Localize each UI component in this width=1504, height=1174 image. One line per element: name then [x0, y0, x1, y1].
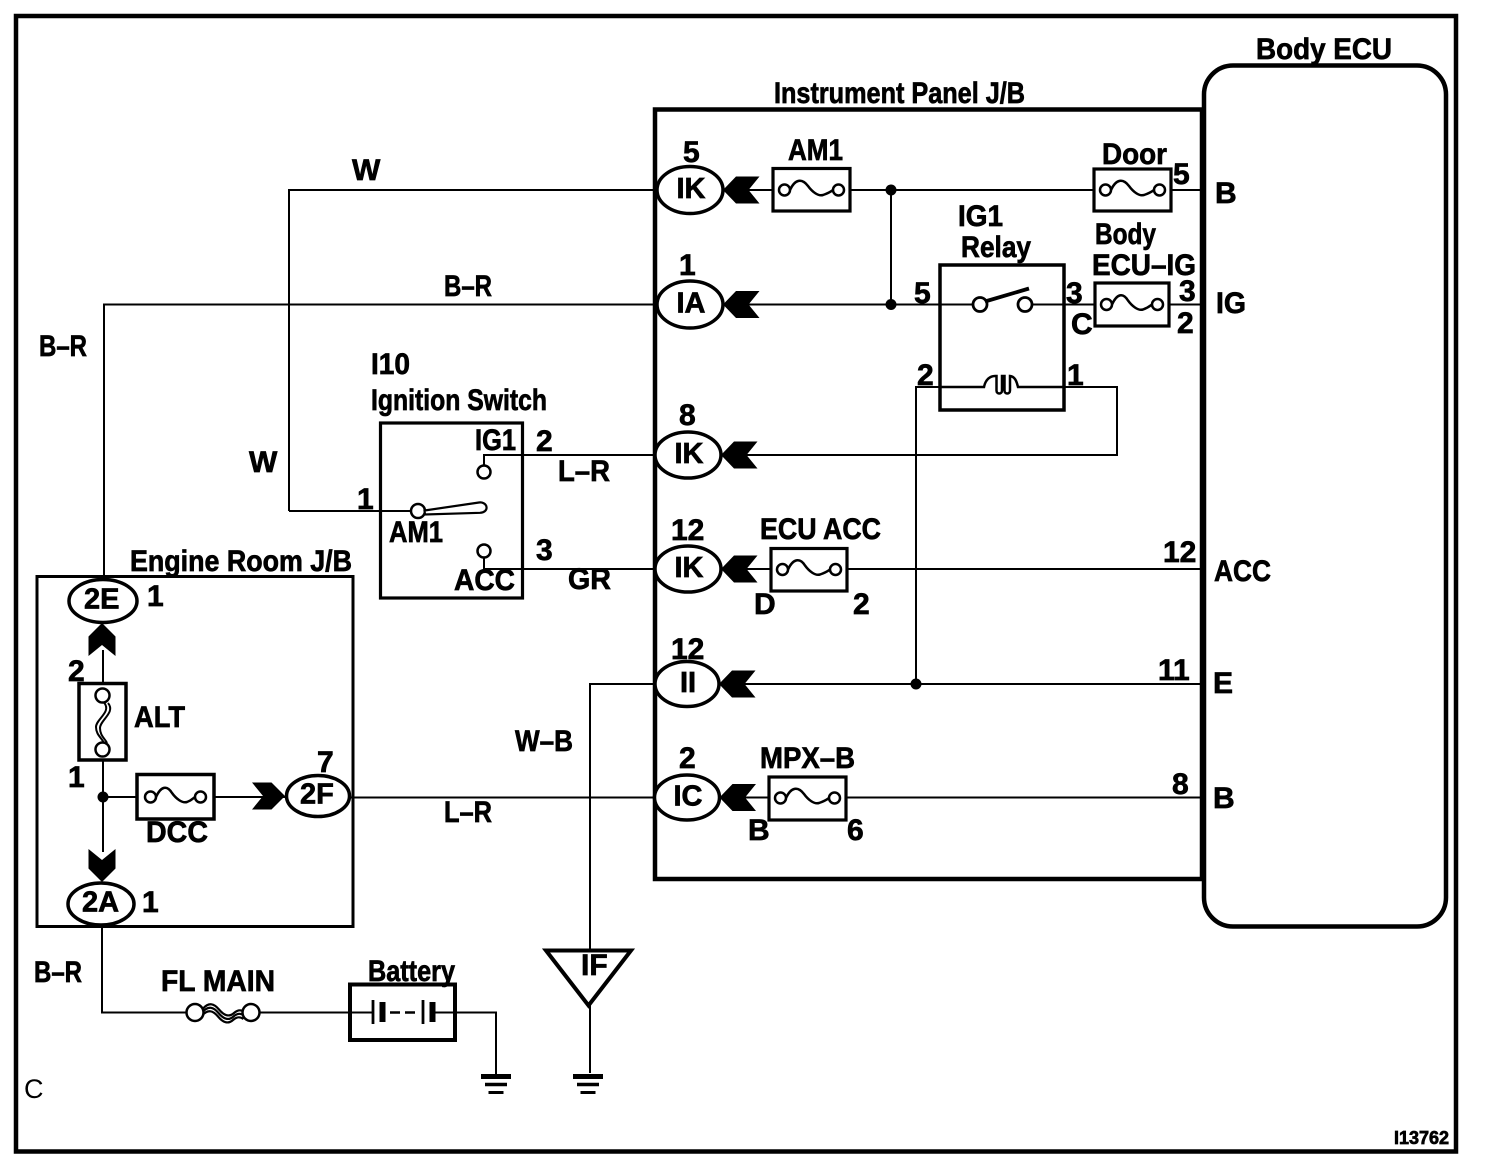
- connector 2A: [68, 883, 134, 925]
- svg-text:12: 12: [1163, 536, 1196, 569]
- junction dot AM1/Door: [886, 185, 897, 196]
- fuse ECU ACC: [771, 549, 847, 592]
- svg-text:12: 12: [671, 633, 704, 666]
- wire row1 B: [718, 189, 1203, 191]
- svg-text:D: D: [754, 588, 776, 621]
- svg-text:1: 1: [147, 580, 164, 613]
- svg-text:11: 11: [1158, 654, 1190, 687]
- svg-text:7: 7: [317, 746, 334, 779]
- svg-text:Instrument Panel J/B: Instrument Panel J/B: [774, 77, 1025, 110]
- svg-text:B–R: B–R: [444, 270, 492, 303]
- svg-text:1: 1: [679, 249, 696, 282]
- svg-text:L–R: L–R: [558, 455, 610, 488]
- junction dot ALT/DCC: [98, 792, 109, 803]
- relay IG1 box: [940, 265, 1064, 410]
- wire 2F to IC: [348, 797, 662, 799]
- svg-text:IG1: IG1: [958, 200, 1003, 233]
- svg-text:B: B: [748, 814, 770, 847]
- svg-text:C: C: [24, 1074, 44, 1104]
- svg-text:IG1: IG1: [475, 424, 516, 457]
- wire row4 ACC: [718, 568, 1203, 570]
- wire DCC row: [103, 796, 290, 798]
- wire 2A to battery: [102, 924, 188, 1013]
- wire battery to ground: [453, 1013, 496, 1075]
- arrow into II: [719, 671, 756, 698]
- svg-text:Battery: Battery: [368, 955, 455, 988]
- svg-text:B–R: B–R: [34, 956, 82, 989]
- ground (battery): [481, 1077, 511, 1093]
- svg-text:B: B: [1213, 782, 1235, 815]
- terminal AM1 + lever: [289, 510, 412, 512]
- svg-text:IK: IK: [675, 552, 704, 584]
- svg-text:IF: IF: [581, 949, 608, 982]
- svg-text:ALT: ALT: [134, 701, 185, 734]
- arrow up from ALT: [89, 623, 116, 656]
- svg-text:3: 3: [536, 534, 553, 567]
- svg-text:12: 12: [671, 514, 704, 547]
- svg-text:B: B: [1215, 177, 1237, 210]
- Engine Room J/B box: [37, 577, 353, 927]
- svg-text:2A: 2A: [82, 887, 119, 919]
- terminal ACC: [478, 545, 491, 558]
- svg-text:L–R: L–R: [444, 796, 492, 829]
- svg-text:DCC: DCC: [146, 816, 208, 849]
- junction dot IA row: [886, 299, 897, 310]
- wire row2 IG: [718, 304, 1203, 306]
- wire W-B rail: [590, 684, 662, 950]
- svg-text:IG: IG: [1216, 287, 1246, 320]
- svg-text:AM1: AM1: [788, 134, 843, 167]
- svg-text:3: 3: [1179, 275, 1196, 308]
- wire relay pin2 down: [916, 387, 940, 684]
- connector IC (2): [655, 775, 720, 820]
- connector IF triangle: [546, 951, 631, 1006]
- ground (IF): [573, 1077, 603, 1093]
- arrow into IK5: [723, 177, 760, 204]
- svg-text:5: 5: [914, 277, 931, 310]
- svg-text:1: 1: [357, 483, 374, 516]
- svg-text:ECU ACC: ECU ACC: [760, 513, 881, 546]
- svg-text:ACC: ACC: [454, 564, 515, 597]
- wire IG1 to IK8: [484, 455, 662, 466]
- relay coil: [940, 376, 1064, 394]
- connector 2F: [287, 776, 350, 817]
- fuse DCC: [137, 775, 214, 820]
- svg-text:6: 6: [847, 814, 864, 847]
- svg-text:Door: Door: [1102, 138, 1167, 171]
- battery: [350, 985, 455, 1041]
- connector IA (1): [657, 281, 723, 328]
- svg-text:E: E: [1213, 667, 1233, 700]
- svg-text:2E: 2E: [84, 584, 119, 616]
- svg-text:I13762: I13762: [1394, 1128, 1449, 1148]
- arrow into IA: [723, 291, 760, 318]
- svg-text:Relay: Relay: [961, 231, 1031, 264]
- wire engine room vertical: [102, 650, 104, 690]
- svg-text:3: 3: [1066, 277, 1083, 310]
- svg-text:8: 8: [679, 399, 696, 432]
- fuse Door: [1094, 169, 1171, 211]
- wire B-R rail: [104, 305, 662, 580]
- svg-text:8: 8: [1172, 768, 1189, 801]
- svg-text:W–B: W–B: [515, 725, 573, 758]
- fuse MPX-B: [769, 777, 846, 820]
- wire W rail: [289, 190, 662, 511]
- connector 2E: [69, 580, 137, 623]
- svg-text:B–R: B–R: [39, 330, 87, 363]
- arrow into IK12: [721, 556, 758, 583]
- svg-text:2: 2: [1177, 307, 1194, 340]
- svg-text:2F: 2F: [300, 779, 334, 811]
- svg-text:2: 2: [679, 742, 696, 775]
- fuse AM1: [773, 169, 850, 212]
- svg-text:IA: IA: [677, 288, 706, 320]
- connector II (12): [655, 662, 719, 707]
- svg-text:IK: IK: [677, 173, 706, 205]
- svg-text:W: W: [352, 154, 381, 187]
- fusible link ALT: [79, 684, 126, 761]
- svg-text:2: 2: [536, 425, 553, 458]
- svg-text:C: C: [1071, 308, 1093, 341]
- ignition switch I10 box: [289, 423, 523, 598]
- fuse Body ECU-IG: [1095, 283, 1169, 326]
- svg-text:II: II: [680, 667, 696, 699]
- relay contact: [940, 304, 973, 306]
- svg-text:Ignition Switch: Ignition Switch: [371, 384, 547, 417]
- connector IK (12): [655, 546, 721, 592]
- svg-text:FL MAIN: FL MAIN: [161, 965, 275, 998]
- terminal IG1: [483, 455, 485, 466]
- svg-text:IK: IK: [675, 438, 704, 470]
- arrow down to 2A: [89, 849, 116, 882]
- svg-text:AM1: AM1: [389, 516, 443, 549]
- svg-text:2: 2: [917, 359, 934, 392]
- connector IK (5): [657, 167, 723, 214]
- svg-text:Body ECU: Body ECU: [1256, 33, 1392, 66]
- svg-text:IC: IC: [674, 781, 703, 813]
- svg-text:2: 2: [853, 588, 870, 621]
- svg-text:1: 1: [68, 761, 85, 794]
- svg-text:GR: GR: [568, 563, 611, 596]
- wire ACC from switch: [484, 557, 662, 569]
- svg-text:Body: Body: [1095, 218, 1156, 251]
- Instrument Panel J/B box: [655, 110, 1202, 880]
- wire row3 relay loop: [718, 387, 1117, 455]
- svg-text:2: 2: [68, 655, 85, 688]
- svg-text:ACC: ACC: [1214, 555, 1271, 588]
- svg-text:1: 1: [142, 886, 159, 919]
- Body ECU box: [1204, 66, 1446, 927]
- svg-text:MPX–B: MPX–B: [760, 742, 855, 775]
- connector IK (8): [655, 432, 721, 478]
- junction dot E row: [911, 679, 922, 690]
- svg-text:1: 1: [1067, 359, 1084, 392]
- svg-text:W: W: [249, 446, 278, 479]
- wire row5 E: [718, 683, 1203, 685]
- fusible link FL MAIN: [187, 1004, 260, 1022]
- wire IF to ground: [589, 1005, 591, 1073]
- svg-text:I10: I10: [371, 348, 410, 381]
- arrow into IK8: [721, 442, 758, 469]
- svg-text:5: 5: [1173, 158, 1190, 191]
- svg-text:Engine Room J/B: Engine Room J/B: [130, 545, 352, 578]
- wire row6 B: [718, 797, 1203, 799]
- wire junction drop AM1: [890, 190, 892, 305]
- arrow right to 2F: [252, 783, 285, 810]
- svg-text:5: 5: [683, 136, 700, 169]
- arrow into IC: [720, 784, 757, 811]
